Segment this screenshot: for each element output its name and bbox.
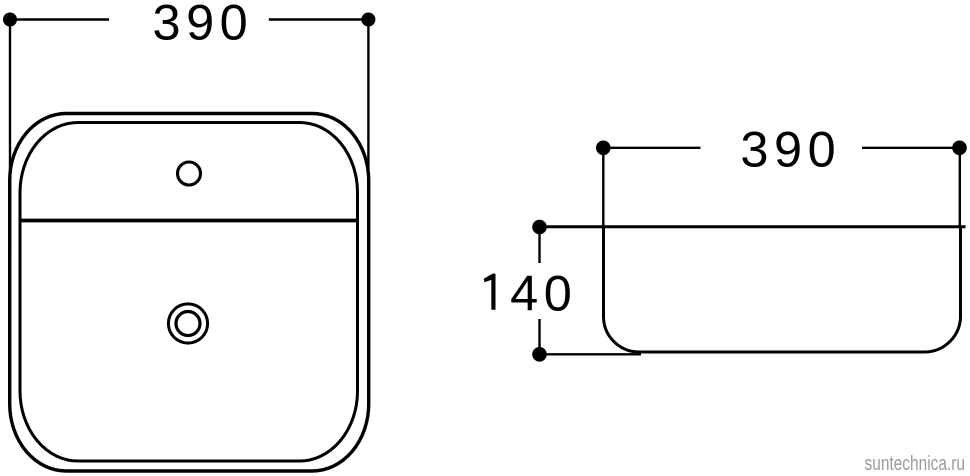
svg-text:40: 40	[510, 265, 577, 322]
top view drain inner circle	[176, 312, 200, 336]
side view rim top edge line	[540, 225, 966, 228]
svg-text:390: 390	[740, 121, 841, 178]
top view outer outline	[10, 114, 369, 472]
top view right extension line	[367, 20, 369, 251]
svg-text:suntechnica.ru: suntechnica.ru	[865, 453, 966, 475]
side view 140 dimension bottom dot	[532, 347, 547, 362]
side view 140 dimension lower segment	[538, 319, 540, 354]
top view inner rim outline	[20, 123, 358, 462]
side view 390 left extension line	[602, 148, 604, 228]
top view faucet hole	[178, 162, 201, 185]
side view 140 bottom extension line	[540, 353, 642, 355]
side view 140 dimension label digit 1	[484, 274, 496, 310]
side view 390 dimension line right segment	[862, 147, 960, 149]
side view 140 dimension upper segment	[538, 227, 540, 263]
side view 390 dimension left dot	[596, 141, 611, 156]
top view 390 dimension line left segment	[10, 18, 109, 20]
top view 390 dimension left dot	[3, 13, 17, 27]
side view 390 right extension line	[959, 148, 961, 228]
top view 390 dimension right dot	[361, 13, 375, 27]
top view left extension line	[9, 20, 11, 251]
top view basin divider line	[20, 219, 358, 223]
svg-text:390: 390	[153, 0, 254, 50]
top view drain outer circle	[168, 304, 207, 343]
side view 390 dimension right dot	[952, 141, 967, 156]
side view 140 dimension top dot	[532, 220, 547, 235]
side view body outline	[604, 227, 961, 352]
top view 390 dimension line right segment	[269, 18, 369, 20]
side view 390 dimension line left segment	[603, 147, 700, 149]
